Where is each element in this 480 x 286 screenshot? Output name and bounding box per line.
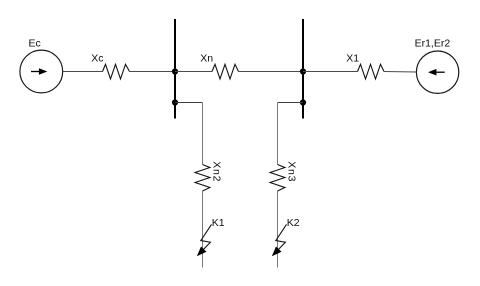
wire bus1 branch horizontal: [175, 102, 203, 104]
resistor X1: [358, 64, 385, 79]
bus 2: [302, 19, 304, 119]
resistor Xc: [103, 64, 130, 79]
fault K1: [197, 224, 212, 256]
wire bus2 branch horizontal: [278, 102, 304, 104]
resistor Xn2: [195, 165, 210, 192]
arrow inside Ec: [31, 68, 47, 75]
wire Xn to bus2: [239, 71, 304, 73]
node bus2/main: [300, 68, 306, 74]
arrow inside Er: [428, 69, 445, 76]
wire X1 to Er: [384, 71, 417, 74]
svg-text:Er1,Er2: Er1,Er2: [415, 38, 451, 50]
wire right drop upper: [277, 103, 279, 165]
wire bus1 to Xn: [175, 71, 212, 73]
wire left drop lower: [202, 191, 204, 268]
bus 1: [174, 19, 176, 119]
node bus1/branch: [172, 99, 178, 105]
svg-text:Xn: Xn: [200, 53, 213, 65]
wire Ec to Xc: [63, 71, 103, 73]
source Ec: [20, 50, 63, 93]
svg-text:Xn2: Xn2: [211, 161, 223, 182]
wire left drop upper: [202, 103, 204, 165]
svg-text:Xn3: Xn3: [286, 161, 298, 182]
source Er1,Er2: [416, 51, 458, 93]
wire bus2 to X1: [303, 71, 358, 73]
svg-text:X1: X1: [346, 53, 359, 65]
wire right drop lower: [277, 191, 279, 268]
node bus1/main: [172, 68, 178, 74]
svg-text:K2: K2: [287, 217, 300, 229]
node bus2/branch: [300, 99, 306, 105]
fault K2: [272, 224, 287, 256]
svg-text:Xc: Xc: [91, 53, 103, 65]
wire Xc to bus1: [130, 71, 176, 73]
svg-text:Ec: Ec: [29, 38, 41, 50]
resistor Xn: [212, 64, 239, 79]
resistor Xn3: [270, 165, 285, 192]
svg-text:K1: K1: [212, 217, 225, 229]
